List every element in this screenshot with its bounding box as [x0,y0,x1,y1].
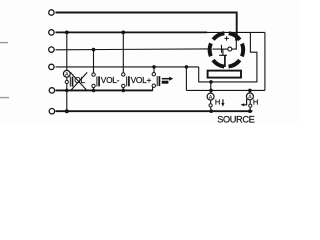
node T5-VOLminus junction [92,89,96,93]
return arrow of CA2 [241,99,247,107]
wire CA1 lower lead [210,100,212,104]
page edge artifact left upper [0,42,8,44]
switch VOL- bottom contact [92,84,95,87]
wire CA2 upper lead [249,90,251,93]
switch VOL+ actuator bars [127,76,129,86]
wire T5 horizontal bus [56,89,153,91]
node box-bottom junction [209,80,213,84]
wire SW4 top stub [153,67,155,73]
connector plug white mask [211,35,241,65]
node T3-V2 junction [92,48,96,52]
cross-out X over HOLD switch [70,72,87,90]
switch SW4 actuator bars [157,76,159,86]
svg-text:VOL-: VOL- [101,75,120,85]
wire lower right horizontal [186,89,265,91]
svg-text:H: H [215,98,220,107]
wire CA1 upper lead [210,82,212,93]
switch HOLD contact [65,80,68,83]
wire right side vertical riser [264,32,266,90]
connector inner contact circle [228,47,232,51]
terminal T3 [49,47,54,52]
wire T2 extension top-right [206,31,265,33]
connector inner tip line [213,48,228,50]
switch HOLD circled-A symbol [63,70,70,78]
svg-text:A: A [209,95,213,101]
connector minus stem lower [224,55,226,67]
switch VOL- top contact [92,73,95,76]
wire CA1 to T6 [210,107,212,111]
terminal T5 [49,88,54,93]
wire V6 vertical from T4 [185,67,187,91]
wire V3 vertical VOL+ top [122,32,124,72]
node T6-V1 junction [65,109,69,113]
wire CA2 to T6 [249,107,251,111]
wire T5 end stub up to SW4 [152,87,154,91]
wire T4 horizontal [56,66,199,68]
switch VOL- actuator bars [97,76,99,86]
contact CA1 [209,104,212,107]
node T6-CA2 junction [248,109,252,113]
terminal T4 [49,64,54,69]
wire VOL- bottom stub [93,88,95,91]
node T2-V3 junction [121,31,125,35]
connector minus stem upper [222,49,224,55]
wire VOL+ bottom stub [122,88,124,91]
wire T6 horizontal bus [56,110,253,112]
SW4 mode arrow glyph [162,77,174,84]
wire T2 horizontal [56,31,208,33]
switch SW4 bottom contact [152,84,155,87]
switch HOLD actuator bars [70,77,72,87]
node T5-V1 junction [65,89,69,93]
node lower-CA1 junction [209,89,213,93]
lamp CA2 circled-A [246,93,253,101]
connector plus mark [224,36,228,40]
node T6-CA1 junction [209,109,213,113]
node T4-V6 junction [185,65,189,69]
svg-text:A: A [65,72,69,78]
connector minus bar [219,54,227,56]
node T4-SW4 junction [152,65,156,69]
svg-text:SOURCE: SOURCE [217,115,254,125]
connector base box [208,71,241,78]
connector inner cross tick [221,45,223,53]
node T2-V1 junction [65,31,69,35]
switch SW4 top contact [152,73,155,76]
svg-text:VOL+: VOL+ [131,75,152,85]
wire V2 vertical VOL- top [93,50,95,73]
wire T1 horizontal [56,12,237,14]
svg-text:H: H [253,98,258,107]
wire T1 drop to connector [236,12,238,36]
terminal T2 [49,30,54,35]
wire T4 routing down-right to box bottom [199,32,257,82]
down arrow of CA1 [221,99,224,106]
connector inner wire end pad [235,38,238,41]
wire T3 horizontal [56,49,228,50]
connector plug dashed ring [210,33,244,67]
connector inner L-wire [232,40,237,50]
contact CA2 [249,104,252,107]
switch VOL+ bottom contact [122,84,125,87]
switch VOL+ top contact [122,73,125,76]
wire CA2 lower lead [249,100,251,104]
terminal T6 [49,109,54,114]
wire V1 vertical x=66.8 [66,32,68,111]
page edge artifact left lower [0,97,9,99]
node lower-CA2 junction [248,89,252,93]
lamp CA1 circled-A [207,93,214,101]
svg-text:A: A [248,95,252,101]
terminal T1 [49,10,54,15]
node T5-VOLplus junction [122,89,126,93]
